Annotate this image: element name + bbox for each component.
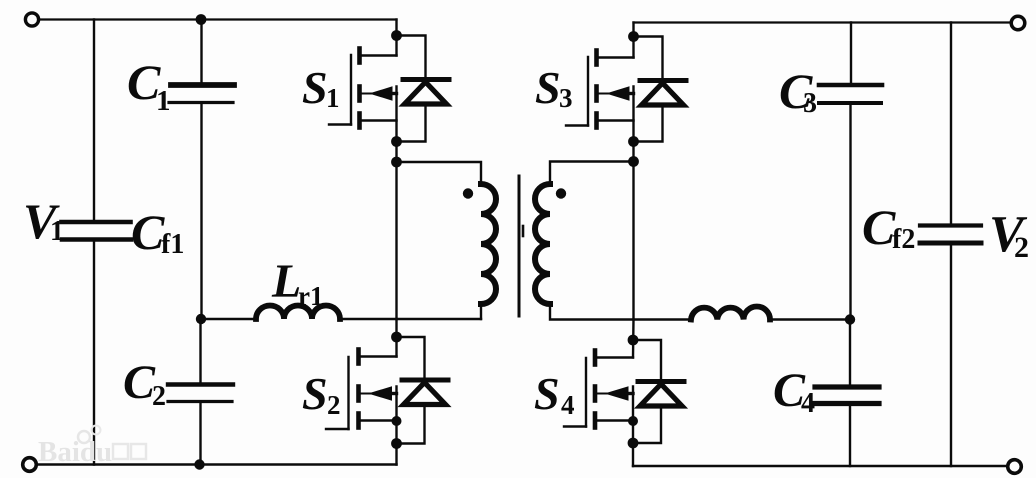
wire C3 top lead: [850, 23, 852, 85]
capacitor C2: [168, 385, 233, 402]
wire right outer bus upper: [950, 23, 952, 225]
svg-text:S: S: [302, 62, 328, 113]
label C1: [127, 54, 171, 117]
svg-text:2: 2: [1014, 231, 1029, 264]
wire C3 bottom lead: [849, 103, 851, 320]
diode D3: [640, 81, 686, 106]
capacitor C1: [169, 85, 234, 103]
node S4 source junction: [628, 416, 638, 426]
wire S1 drain top: [395, 20, 397, 56]
wire secondary top lead: [550, 162, 634, 185]
wire inductor to C4 node: [770, 318, 850, 320]
capacitor Cf2: [920, 226, 981, 244]
transistor S1: [329, 49, 397, 128]
wire mid node to inductor: [201, 318, 256, 320]
node S2 source-diode junction: [391, 438, 402, 449]
terminal TR: [1011, 16, 1025, 30]
wire S3 channel to mid: [632, 87, 634, 320]
label V1: [23, 193, 64, 249]
node bottom left junction: [194, 459, 204, 469]
svg-text:S: S: [535, 62, 561, 113]
node S2 diode tap: [391, 332, 402, 343]
svg-text:r1: r1: [298, 281, 323, 311]
transformer core: [519, 176, 523, 316]
terminal BR: [1008, 460, 1022, 474]
wire bottom rail right: [633, 465, 1008, 467]
wire right outer bus lower: [950, 243, 952, 466]
wire D4 bottom branch: [633, 406, 661, 443]
wire left outer bus lower: [93, 242, 95, 465]
wire C2 bottom lead: [199, 402, 201, 465]
svg-text:Baidu: Baidu: [38, 436, 112, 468]
svg-text:S: S: [302, 368, 328, 419]
label C2: [123, 356, 166, 412]
svg-text:3: 3: [803, 88, 817, 119]
wire S4 drain from mid: [632, 320, 635, 358]
wire D1 top branch: [397, 36, 426, 78]
label Lr1: [271, 255, 323, 311]
svg-text:1: 1: [50, 216, 64, 247]
svg-text:3: 3: [559, 83, 573, 113]
terminal BL: [23, 458, 37, 472]
label S2: [302, 368, 341, 420]
wire top rail left: [39, 18, 397, 20]
capacitor C4: [815, 387, 879, 404]
inductor Lr1: [256, 306, 340, 320]
svg-text:C: C: [131, 204, 165, 260]
svg-text:f2: f2: [892, 224, 915, 255]
node S1 source-diode junction: [391, 136, 402, 147]
diode D4: [638, 382, 684, 407]
node S1 diode tap: [391, 30, 402, 41]
transformer primary polarity dot: [463, 188, 473, 198]
label S3: [535, 62, 573, 113]
wire S2 channel to rail: [395, 387, 397, 465]
node S3 source-diode junction: [628, 136, 639, 147]
label Cf2: [862, 199, 915, 255]
terminal TL: [25, 13, 38, 26]
svg-text:4: 4: [561, 390, 575, 420]
transistor S3: [566, 51, 634, 128]
wire S2 drain from mid: [395, 319, 397, 357]
label S4: [534, 368, 575, 420]
svg-text:2: 2: [327, 390, 341, 420]
capacitor C3: [819, 85, 882, 103]
transformer secondary polarity dot: [556, 188, 566, 198]
wire bottom rail left: [37, 463, 397, 465]
svg-text:L: L: [271, 255, 301, 308]
diode D2: [402, 380, 448, 405]
wire C4 bottom lead: [849, 404, 851, 466]
wire secondary bottom lead: [550, 304, 691, 320]
label C3: [779, 63, 817, 119]
label C4: [773, 364, 815, 419]
wire C4 top lead: [849, 320, 851, 388]
node S3 diode tap: [628, 31, 639, 42]
svg-text:1: 1: [326, 83, 340, 113]
wire D2 top branch: [397, 337, 425, 378]
wire D2 bottom branch: [397, 405, 425, 444]
wire primary bottom lead: [480, 304, 482, 319]
source V1 / capacitor Cf1: [62, 222, 132, 240]
wire top rail right: [634, 21, 1012, 23]
node left inner top junction: [196, 14, 207, 25]
node mid left junction: [196, 314, 206, 324]
transistor S2: [326, 350, 397, 430]
wire C1 top lead: [200, 20, 202, 85]
transformer T secondary winding: [535, 184, 550, 304]
svg-text:4: 4: [801, 388, 815, 419]
wire D1 bottom branch: [397, 104, 426, 142]
watermark baidu: [38, 426, 146, 469]
svg-text:S: S: [534, 368, 560, 419]
wire primary top lead: [397, 162, 482, 184]
transformer T primary winding: [481, 184, 496, 304]
wire D4 top branch: [633, 340, 661, 380]
transistor S4: [564, 351, 633, 428]
label Cf1: [131, 204, 184, 260]
inductor L2: [691, 307, 770, 320]
svg-text:1: 1: [156, 85, 171, 117]
wire inductor to primary bottom: [340, 318, 481, 320]
wire S1 channel to mid: [395, 87, 397, 320]
wire S4 channel to rail: [632, 387, 634, 467]
label S1: [302, 62, 340, 113]
node S4 source-diode junction: [628, 438, 639, 449]
wire D3 bottom branch: [634, 105, 663, 142]
node mid right junction: [845, 314, 855, 324]
node S4 diode tap: [628, 335, 639, 346]
wire C2 top lead: [199, 319, 201, 384]
svg-text:2: 2: [152, 381, 166, 412]
wire C1 bottom lead: [200, 103, 202, 320]
diode D1: [403, 80, 449, 105]
node S1 transformer tap: [391, 157, 402, 168]
node S2 source junction: [392, 416, 402, 426]
wire S3 drain top: [632, 23, 634, 58]
svg-text:f1: f1: [161, 229, 184, 260]
node S3 transformer tap: [628, 156, 639, 167]
svg-text:C: C: [862, 199, 896, 255]
wire left outer bus upper: [93, 20, 95, 221]
label V2: [989, 206, 1029, 264]
wire D3 top branch: [634, 37, 663, 79]
